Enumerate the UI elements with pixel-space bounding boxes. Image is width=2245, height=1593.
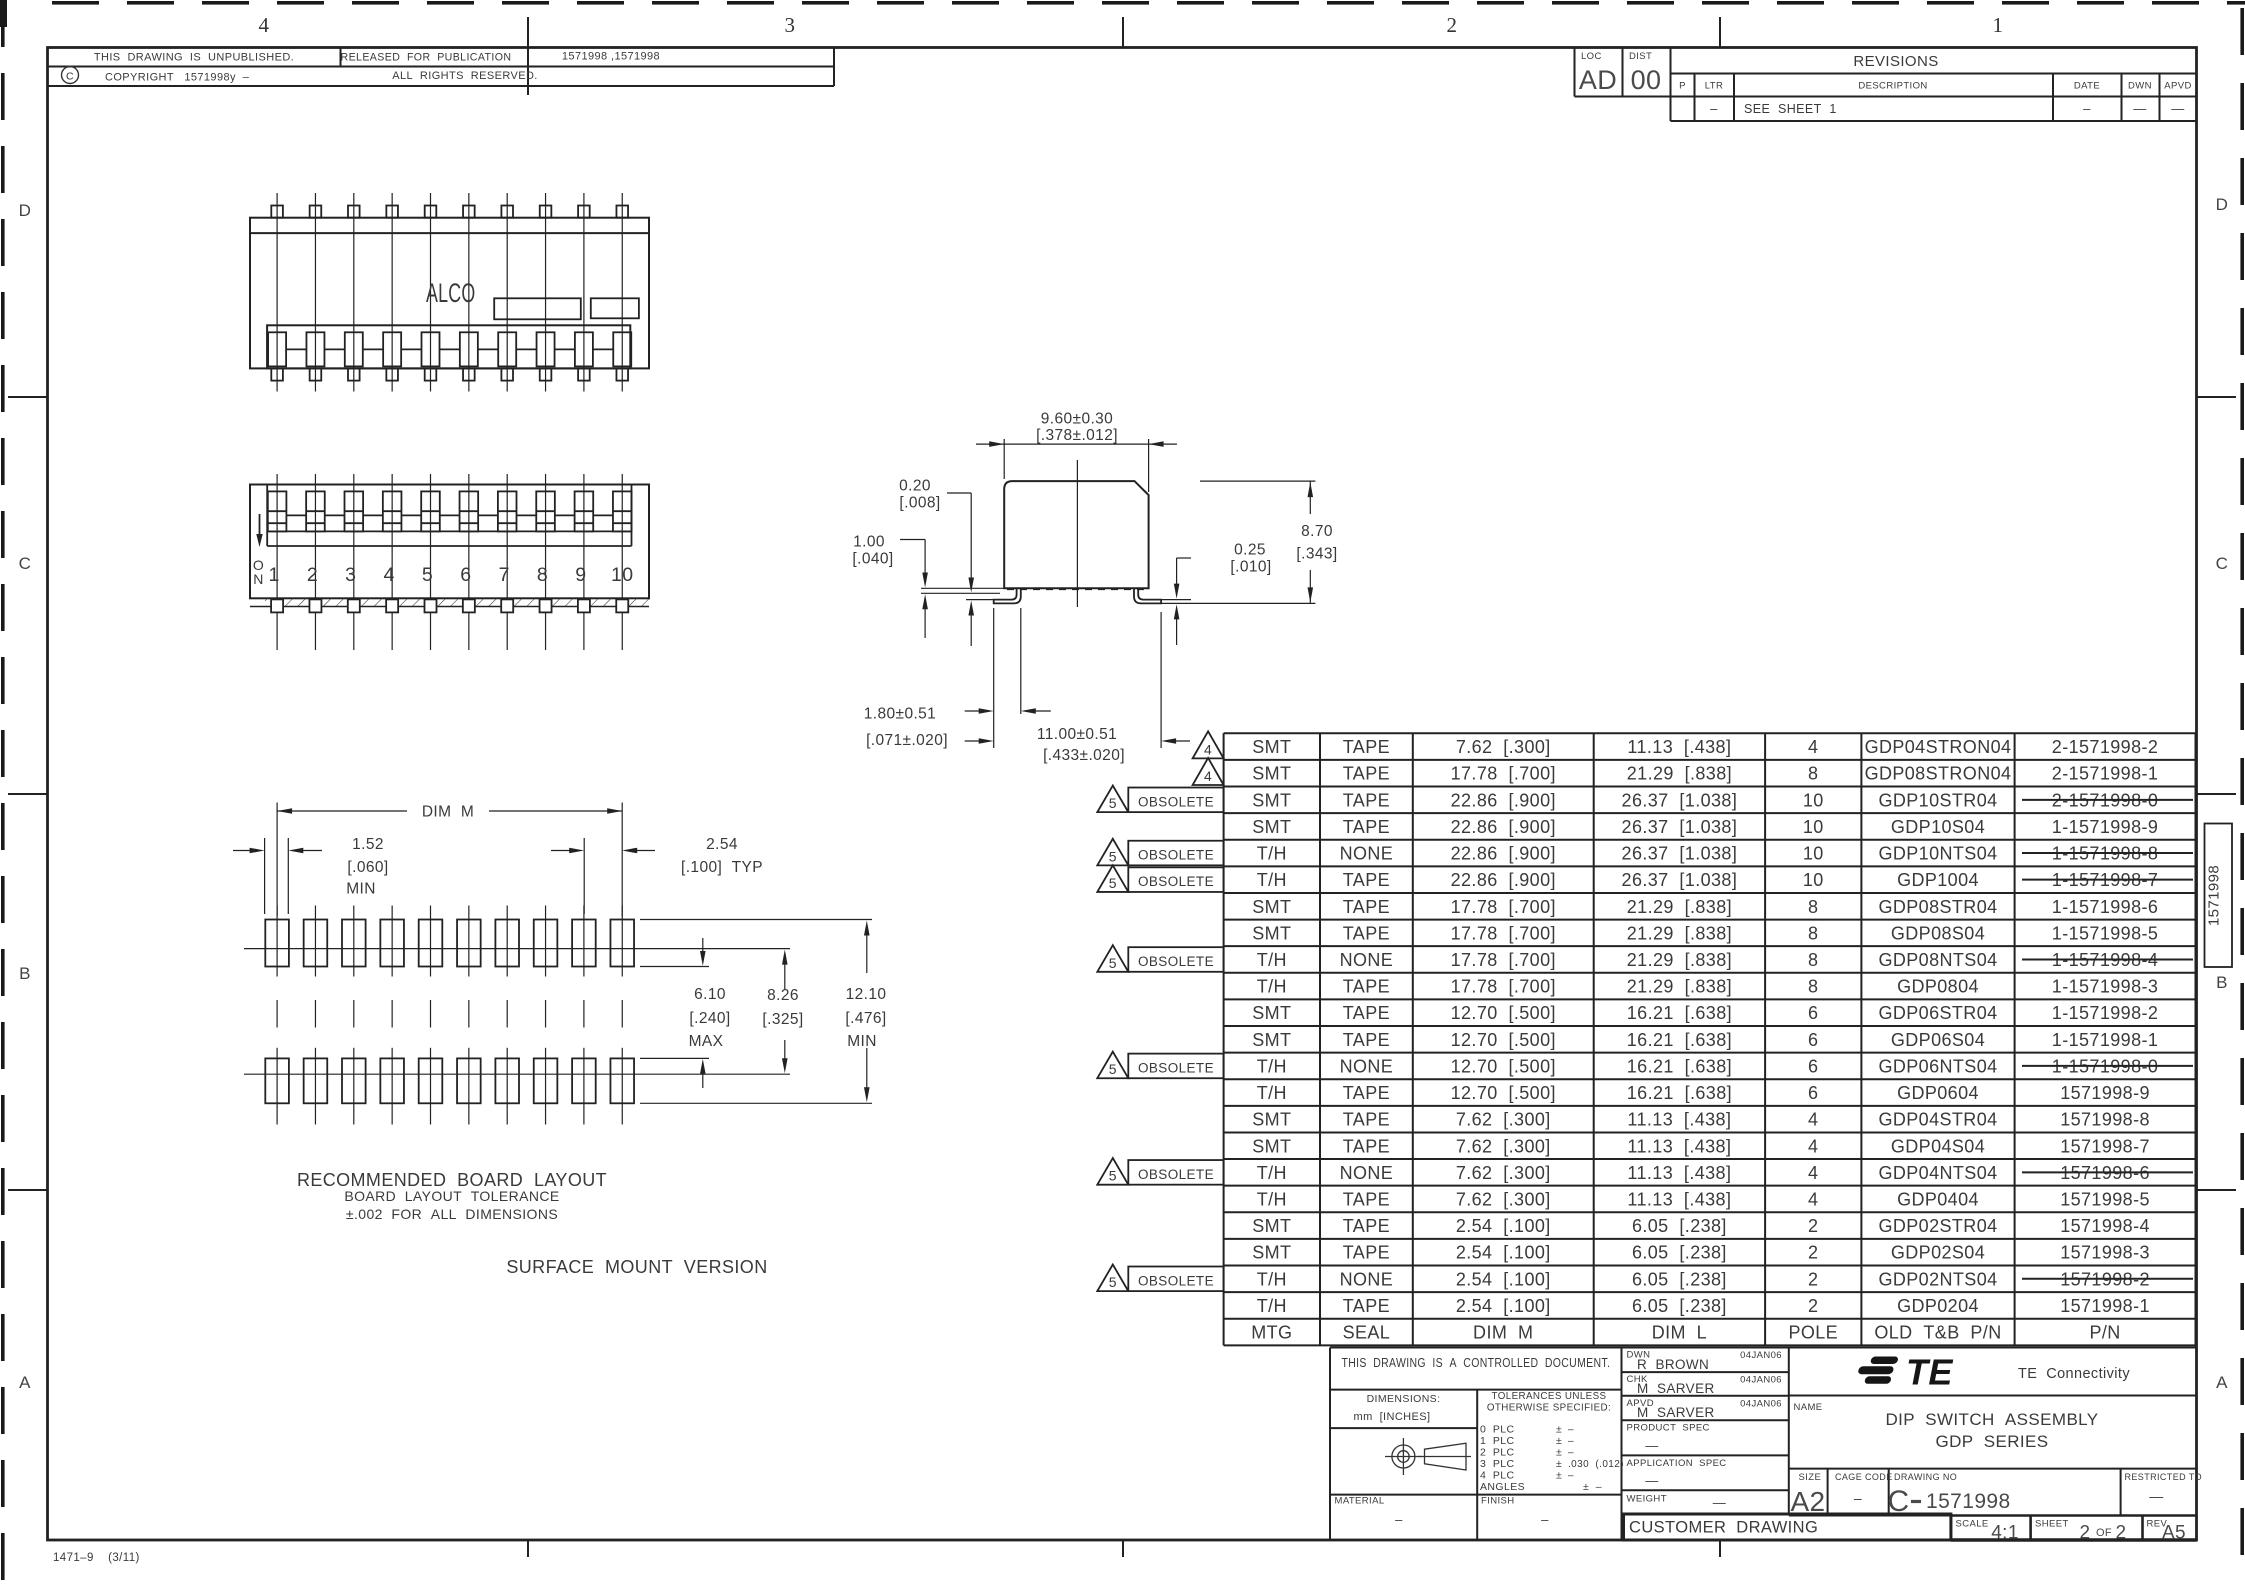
svg-text:6.10: 6.10	[694, 986, 726, 1003]
obsolete flag row 13	[1128, 1054, 1223, 1079]
svg-text:11.13 [.438]: 11.13 [.438]	[1627, 1110, 1731, 1130]
svg-text:±: ±	[1556, 1458, 1562, 1470]
svg-text:5: 5	[1109, 795, 1117, 811]
title block: scale/sheet/rev row	[1950, 1516, 1953, 1541]
strikethrough row 5	[2022, 852, 2193, 854]
svg-text:8.26: 8.26	[767, 987, 799, 1004]
top view: rockers	[268, 332, 286, 366]
svg-text:2.54 [.100]: 2.54 [.100]	[1456, 1269, 1551, 1289]
svg-text:9.60±0.30: 9.60±0.30	[1041, 411, 1113, 428]
svg-text:GDP08S04: GDP08S04	[1891, 923, 1985, 943]
svg-text:[.378±.012]: [.378±.012]	[1036, 427, 1118, 444]
board layout dim: 6.10 [.240] MAX	[640, 966, 709, 968]
svg-text:THIS DRAWING IS UNPUBLISHED: THIS DRAWING IS UNPUBLISHED.	[94, 52, 294, 64]
obsolete flag row 17	[1128, 1160, 1223, 1185]
top view: bottom pin squares	[271, 368, 283, 380]
svg-text:1-1571998-5: 1-1571998-5	[2052, 923, 2159, 943]
svg-text:NONE: NONE	[1340, 1269, 1394, 1289]
side view: vertical centerline	[1076, 460, 1078, 607]
svg-text:04JAN06: 04JAN06	[1740, 1375, 1782, 1386]
svg-text:GDP06NTS04: GDP06NTS04	[1878, 1056, 1997, 1076]
svg-text:MIN: MIN	[847, 1033, 877, 1050]
svg-text:GDP0604: GDP0604	[1897, 1083, 1979, 1103]
zone ticks right	[2197, 396, 2236, 398]
svg-text:–: –	[1541, 1512, 1549, 1527]
svg-text:GDP04STR04: GDP04STR04	[1878, 1110, 1997, 1130]
svg-text:21.29 [.838]: 21.29 [.838]	[1627, 923, 1732, 943]
side view dim: 1.80±0.51 [.071±.020]	[993, 608, 995, 748]
svg-text:OBSOLETE: OBSOLETE	[1138, 1167, 1214, 1182]
svg-text:OF: OF	[2096, 1527, 2112, 1539]
front view: body outline	[250, 485, 649, 599]
svg-text:SMT: SMT	[1252, 897, 1291, 917]
svg-text:1571998-1: 1571998-1	[2060, 1296, 2150, 1316]
svg-text:6.05 [.238]: 6.05 [.238]	[1632, 1269, 1727, 1289]
svg-text:RELEASED FOR PUBLICATION: RELEASED FOR PUBLICATION	[341, 52, 512, 64]
svg-text:SHEET: SHEET	[2035, 1519, 2069, 1530]
svg-text:7.62 [.300]: 7.62 [.300]	[1456, 1163, 1551, 1183]
svg-text:1: 1	[268, 564, 279, 586]
svg-text:2.54: 2.54	[706, 836, 738, 853]
svg-text:SEAL: SEAL	[1343, 1323, 1391, 1343]
svg-text:SMT: SMT	[1252, 1110, 1291, 1130]
dashed trim border right	[2240, 8, 2244, 55]
svg-text:2: 2	[1808, 1216, 1818, 1236]
svg-text:12.70 [.500]: 12.70 [.500]	[1451, 1003, 1556, 1023]
svg-text:2.54 [.100]: 2.54 [.100]	[1456, 1216, 1551, 1236]
side view dim: 11.00±0.51 [.433±.020]	[1160, 612, 1162, 748]
svg-text:REVISIONS: REVISIONS	[1853, 53, 1938, 70]
svg-text:3: 3	[345, 564, 356, 586]
title block: size row	[1827, 1469, 1829, 1516]
zone ticks top	[527, 17, 529, 95]
front view: ON arrow	[259, 514, 261, 536]
svg-text:LOC: LOC	[1581, 51, 1602, 62]
svg-text:GDP08NTS04: GDP08NTS04	[1878, 950, 1997, 970]
svg-text:1-1571998-2: 1-1571998-2	[2052, 1003, 2159, 1023]
svg-text:7.62 [.300]: 7.62 [.300]	[1456, 1189, 1551, 1209]
svg-text:10: 10	[1803, 844, 1824, 864]
svg-text:NONE: NONE	[1340, 1056, 1394, 1076]
svg-text:—: —	[1713, 1495, 1726, 1510]
svg-text:SMT: SMT	[1252, 1030, 1291, 1050]
svg-text:GDP04S04: GDP04S04	[1891, 1136, 1985, 1156]
svg-text:TE: TE	[1906, 1352, 1953, 1393]
top view: rocker strip	[267, 325, 630, 368]
board layout: bottom pad row	[265, 1058, 289, 1103]
svg-text:C: C	[1887, 1485, 1909, 1518]
svg-text:1-1571998-9: 1-1571998-9	[2052, 817, 2159, 837]
svg-text:TE Connectivity: TE Connectivity	[2018, 1366, 2130, 1382]
title block: customer drawing box	[1624, 1514, 1951, 1540]
svg-text:26.37 [1.038]: 26.37 [1.038]	[1622, 817, 1738, 837]
svg-text:6: 6	[1808, 1030, 1818, 1050]
strikethrough row 3	[2022, 799, 2193, 801]
revision triangle 4, row 2	[1193, 758, 1224, 785]
svg-text:—: —	[2171, 101, 2184, 116]
svg-text:2: 2	[1808, 1296, 1818, 1316]
svg-text:4: 4	[1204, 768, 1212, 784]
title block: third angle projection symbol	[1392, 1445, 1415, 1468]
svg-text:17.78 [.700]: 17.78 [.700]	[1451, 977, 1556, 997]
svg-text:2: 2	[2116, 1523, 2127, 1544]
svg-text:T/H: T/H	[1257, 1296, 1287, 1316]
svg-text:MIN: MIN	[346, 881, 376, 898]
svg-text:TAPE: TAPE	[1343, 1083, 1390, 1103]
svg-text:–: –	[1568, 1425, 1574, 1436]
svg-text:7: 7	[499, 564, 510, 586]
copyright line	[62, 67, 79, 84]
svg-text:DWN: DWN	[2128, 81, 2152, 92]
svg-text:OBSOLETE: OBSOLETE	[1138, 848, 1214, 863]
svg-text:COPYRIGHT 1571998y –: COPYRIGHT 1571998y –	[105, 72, 250, 84]
svg-text:A: A	[2216, 1373, 2228, 1392]
svg-text:4: 4	[1808, 1136, 1818, 1156]
svg-text:04JAN06: 04JAN06	[1740, 1350, 1782, 1361]
svg-text:R BROWN: R BROWN	[1637, 1357, 1709, 1372]
TE logo	[1857, 1352, 1953, 1393]
svg-text:5: 5	[1109, 955, 1117, 971]
svg-text:CAGE CODE: CAGE CODE	[1835, 1472, 1893, 1482]
svg-text:TAPE: TAPE	[1343, 1243, 1390, 1263]
svg-text:5: 5	[422, 564, 433, 586]
top view: pin centerlines	[276, 193, 278, 392]
svg-text:21.29 [.838]: 21.29 [.838]	[1627, 977, 1732, 997]
svg-text:1 PLC: 1 PLC	[1480, 1435, 1515, 1447]
svg-text:THIS DRAWING IS A CONTROLL: THIS DRAWING IS A CONTROLLED DOCUMENT.	[1342, 1357, 1611, 1370]
svg-text:5: 5	[1109, 875, 1117, 891]
svg-text:21.29 [.838]: 21.29 [.838]	[1627, 897, 1732, 917]
svg-text:ALCO: ALCO	[426, 277, 476, 308]
top view: top strip line	[250, 232, 649, 234]
svg-text:±: ±	[1556, 1424, 1562, 1436]
svg-text:2: 2	[307, 564, 318, 586]
svg-text:±.002 FOR ALL DIMENSIONS: ±.002 FOR ALL DIMENSIONS	[346, 1206, 558, 1222]
svg-text:±: ±	[1556, 1470, 1562, 1482]
svg-text:T/H: T/H	[1257, 950, 1287, 970]
svg-text:6: 6	[1808, 1083, 1818, 1103]
side view: right gull-wing lead	[1134, 588, 1161, 603]
side view dim: 8.70 [.343]	[1200, 480, 1315, 482]
svg-text:T/H: T/H	[1257, 870, 1287, 890]
svg-text:TAPE: TAPE	[1343, 1189, 1390, 1209]
svg-text:C: C	[19, 554, 32, 573]
svg-text:D: D	[19, 201, 32, 220]
front view: lower pin squares	[271, 599, 283, 612]
svg-text:1: 1	[1993, 13, 2004, 37]
svg-text:1-1571998-6: 1-1571998-6	[2052, 897, 2159, 917]
svg-text:2.54 [.100]: 2.54 [.100]	[1456, 1296, 1551, 1316]
front view: inner frame	[266, 485, 268, 547]
svg-text:WEIGHT: WEIGHT	[1627, 1494, 1667, 1505]
svg-text:16.21 [.638]: 16.21 [.638]	[1627, 1083, 1732, 1103]
svg-text:GDP1004: GDP1004	[1897, 870, 1979, 890]
svg-text:21.29 [.838]: 21.29 [.838]	[1627, 764, 1732, 784]
svg-text:OBSOLETE: OBSOLETE	[1138, 1273, 1214, 1288]
svg-text:2.54 [.100]: 2.54 [.100]	[1456, 1243, 1551, 1263]
svg-text:[.071±.020]: [.071±.020]	[866, 732, 948, 749]
svg-text:DIM M: DIM M	[422, 804, 474, 821]
svg-text:22.86 [.900]: 22.86 [.900]	[1451, 790, 1556, 810]
svg-text:±: ±	[1556, 1435, 1562, 1447]
svg-text:DIST: DIST	[1629, 51, 1652, 62]
svg-text:8: 8	[1808, 764, 1818, 784]
svg-text:SMT: SMT	[1252, 1243, 1291, 1263]
svg-text:OBSOLETE: OBSOLETE	[1138, 954, 1214, 969]
revision triangle 4, row 1	[1193, 731, 1224, 758]
board layout dim: 8.26 [.325]	[652, 948, 790, 950]
svg-text:11.13 [.438]: 11.13 [.438]	[1627, 1189, 1731, 1209]
svg-text:GDP04NTS04: GDP04NTS04	[1878, 1163, 1997, 1183]
top view: rocker connector lines	[286, 348, 306, 350]
svg-text:POLE: POLE	[1788, 1323, 1838, 1343]
svg-text:10: 10	[1803, 817, 1824, 837]
svg-text:7.62 [.300]: 7.62 [.300]	[1456, 1110, 1551, 1130]
obsolete flag row 9	[1128, 947, 1223, 972]
svg-text:GDP10S04: GDP10S04	[1891, 817, 1985, 837]
svg-text:D: D	[2216, 195, 2229, 214]
title block outer	[1330, 1347, 2197, 1349]
board layout: DIM M dimension	[276, 803, 278, 917]
board layout dim: 1.52 [.060] MIN	[264, 838, 266, 914]
svg-text:1571998-9: 1571998-9	[2060, 1083, 2150, 1103]
svg-text:SMT: SMT	[1252, 764, 1291, 784]
svg-text:2: 2	[1808, 1269, 1818, 1289]
front view: well connector lines	[286, 514, 306, 516]
svg-text:RECOMMENDED BOARD LAYOUT: RECOMMENDED BOARD LAYOUT	[297, 1170, 607, 1190]
svg-text:DIM L: DIM L	[1652, 1323, 1707, 1343]
svg-text:C: C	[66, 71, 74, 83]
svg-text:–: –	[1568, 1436, 1574, 1447]
svg-text:DIMENSIONS:: DIMENSIONS:	[1367, 1393, 1441, 1405]
svg-text:22.86 [.900]: 22.86 [.900]	[1451, 870, 1556, 890]
svg-text:17.78 [.700]: 17.78 [.700]	[1451, 923, 1556, 943]
svg-text:2-1571998-1: 2-1571998-1	[2052, 764, 2159, 784]
svg-text:0 PLC: 0 PLC	[1480, 1424, 1515, 1436]
svg-text:17.78 [.700]: 17.78 [.700]	[1451, 950, 1556, 970]
title block: controlled document cell	[1330, 1389, 1622, 1391]
svg-text:SMT: SMT	[1252, 923, 1291, 943]
svg-text:MTG: MTG	[1251, 1323, 1292, 1343]
dashed trim border top	[52, 1, 99, 5]
svg-text:—: —	[2133, 101, 2146, 116]
svg-text:TAPE: TAPE	[1343, 923, 1390, 943]
svg-text:GDP10NTS04: GDP10NTS04	[1878, 844, 1997, 864]
svg-text:N: N	[253, 571, 264, 587]
svg-text:26.37 [1.038]: 26.37 [1.038]	[1622, 870, 1738, 890]
svg-text:PRODUCT SPEC: PRODUCT SPEC	[1627, 1423, 1710, 1434]
board layout: bottom row horizontal centerline	[244, 1073, 652, 1075]
svg-text:[.433±.020]: [.433±.020]	[1043, 747, 1125, 764]
svg-text:1.52: 1.52	[352, 836, 384, 853]
svg-text:GDP0204: GDP0204	[1897, 1296, 1979, 1316]
board layout dim: 12.10 [.476] MIN	[640, 919, 872, 921]
svg-text:1571998-5: 1571998-5	[2060, 1189, 2150, 1209]
svg-text:GDP08STRON04: GDP08STRON04	[1865, 764, 2012, 784]
svg-text:GDP02STR04: GDP02STR04	[1878, 1216, 1997, 1236]
svg-text:GDP06S04: GDP06S04	[1891, 1030, 1985, 1050]
svg-text:[.476]: [.476]	[845, 1010, 886, 1027]
svg-text:11.13 [.438]: 11.13 [.438]	[1627, 1136, 1731, 1156]
side view dim: 9.60±0.30 [.378±.012]	[1003, 439, 1005, 479]
svg-text:12.70 [.500]: 12.70 [.500]	[1451, 1030, 1556, 1050]
svg-text:21.29 [.838]: 21.29 [.838]	[1627, 950, 1732, 970]
obsolete flag row 5	[1128, 841, 1223, 866]
svg-text:9: 9	[575, 564, 586, 586]
svg-text:TOLERANCES UNLESS: TOLERANCES UNLESS	[1492, 1391, 1607, 1402]
svg-text:NONE: NONE	[1340, 950, 1394, 970]
svg-text:GDP0804: GDP0804	[1897, 977, 1979, 997]
board layout: top row horizontal centerline	[244, 948, 652, 950]
svg-text:–: –	[1568, 1448, 1574, 1459]
corner mark top-left	[0, 0, 7, 27]
svg-text:1-1571998-1: 1-1571998-1	[2052, 1030, 2159, 1050]
svg-text:TAPE: TAPE	[1343, 1296, 1390, 1316]
svg-text:[.325]: [.325]	[762, 1011, 803, 1028]
svg-text:3 PLC: 3 PLC	[1480, 1458, 1515, 1470]
svg-text:OBSOLETE: OBSOLETE	[1138, 794, 1214, 809]
svg-text:8: 8	[1808, 923, 1818, 943]
svg-text:00: 00	[1631, 65, 1662, 95]
svg-text:04JAN06: 04JAN06	[1740, 1398, 1782, 1409]
svg-text:17.78 [.700]: 17.78 [.700]	[1451, 764, 1556, 784]
top view: DIP switch body	[250, 218, 649, 369]
info block top-left	[48, 85, 834, 87]
svg-text:.030 (.012): .030 (.012)	[1568, 1459, 1624, 1470]
svg-text:TAPE: TAPE	[1343, 790, 1390, 810]
svg-text:NAME: NAME	[1794, 1402, 1823, 1413]
svg-text:T/H: T/H	[1257, 844, 1287, 864]
title block: dimensions cell	[1330, 1427, 1477, 1429]
svg-text:FINISH: FINISH	[1481, 1496, 1515, 1507]
svg-text:1571998 ,1571998: 1571998 ,1571998	[562, 51, 660, 63]
front view: pin centerlines	[276, 474, 278, 650]
svg-text:11.13 [.438]: 11.13 [.438]	[1627, 737, 1731, 757]
svg-text:–: –	[1854, 1490, 1862, 1506]
svg-text:GDP06STR04: GDP06STR04	[1878, 1003, 1997, 1023]
svg-text:OBSOLETE: OBSOLETE	[1138, 1060, 1214, 1075]
svg-text:1571998-3: 1571998-3	[2060, 1243, 2150, 1263]
svg-text:CUSTOMER DRAWING: CUSTOMER DRAWING	[1629, 1519, 1818, 1537]
svg-text:—: —	[1645, 1473, 1658, 1488]
svg-text:10: 10	[1803, 870, 1824, 890]
strikethrough row 17	[2022, 1171, 2193, 1173]
svg-text:APPLICATION SPEC: APPLICATION SPEC	[1627, 1458, 1727, 1469]
strikethrough row 13	[2022, 1065, 2193, 1067]
svg-text:SMT: SMT	[1252, 817, 1291, 837]
svg-text:4:1: 4:1	[1991, 1523, 2019, 1544]
svg-text:—: —	[1645, 1438, 1658, 1453]
svg-text:4: 4	[1808, 1110, 1818, 1130]
zone ticks bottom	[527, 1540, 529, 1557]
obsolete flag row 6	[1128, 867, 1223, 892]
revisions block	[1574, 48, 1576, 97]
svg-text:6.05 [.238]: 6.05 [.238]	[1632, 1216, 1727, 1236]
svg-text:1571998-4: 1571998-4	[2060, 1216, 2150, 1236]
svg-text:11.13 [.438]: 11.13 [.438]	[1627, 1163, 1731, 1183]
svg-text:26.37 [1.038]: 26.37 [1.038]	[1622, 844, 1738, 864]
svg-text:2: 2	[1447, 13, 1458, 37]
svg-text:8: 8	[1808, 950, 1818, 970]
svg-text:TAPE: TAPE	[1343, 870, 1390, 890]
svg-text:[.008]: [.008]	[899, 495, 940, 512]
front view: pcb band bottom line	[250, 606, 649, 608]
svg-text:12.70 [.500]: 12.70 [.500]	[1451, 1083, 1556, 1103]
board layout: mid centerline dashes	[276, 1000, 278, 1028]
svg-text:–: –	[2083, 101, 2091, 116]
svg-text:OBSOLETE: OBSOLETE	[1138, 874, 1214, 889]
side view: seating reference lines	[921, 587, 1004, 589]
side view: left gull-wing lead	[994, 588, 1021, 603]
svg-text:0.25: 0.25	[1234, 542, 1266, 559]
svg-text:B: B	[2216, 973, 2228, 992]
svg-text:LTR: LTR	[1705, 81, 1723, 92]
svg-text:DIM M: DIM M	[1473, 1323, 1533, 1343]
svg-text:TAPE: TAPE	[1343, 977, 1390, 997]
svg-text:4: 4	[384, 564, 395, 586]
dashed trim border left	[1, 0, 5, 47]
svg-text:DATE: DATE	[2074, 81, 2100, 92]
title block: approvals column	[1622, 1371, 1789, 1373]
svg-text:–: –	[1710, 101, 1718, 116]
svg-text:OLD T&B P/N: OLD T&B P/N	[1874, 1323, 2001, 1343]
svg-text:1571998-7: 1571998-7	[2060, 1136, 2150, 1156]
svg-text:TAPE: TAPE	[1343, 737, 1390, 757]
svg-text:ALL RIGHTS RESERVED.: ALL RIGHTS RESERVED.	[392, 70, 538, 82]
svg-text:TAPE: TAPE	[1343, 897, 1390, 917]
svg-text:T/H: T/H	[1257, 1189, 1287, 1209]
svg-text:6.05 [.238]: 6.05 [.238]	[1632, 1243, 1727, 1263]
svg-text:2: 2	[1808, 1243, 1818, 1263]
svg-text:SMT: SMT	[1252, 737, 1291, 757]
svg-text:TAPE: TAPE	[1343, 1030, 1390, 1050]
board layout: top pad row	[265, 920, 289, 967]
svg-text:P: P	[1679, 81, 1686, 92]
part number tag (rotated)	[2205, 824, 2233, 968]
svg-text:AD: AD	[1579, 65, 1617, 95]
svg-text:4 PLC: 4 PLC	[1480, 1470, 1515, 1482]
svg-text:T/H: T/H	[1257, 977, 1287, 997]
svg-text:4: 4	[1808, 1189, 1818, 1209]
svg-text:[.343]: [.343]	[1296, 546, 1337, 563]
svg-text:12.10: 12.10	[846, 986, 887, 1003]
svg-text:–: –	[1395, 1512, 1403, 1527]
svg-text:1471–9 (3/11): 1471–9 (3/11)	[53, 1552, 140, 1564]
svg-text:22.86 [.900]: 22.86 [.900]	[1451, 844, 1556, 864]
svg-text:SMT: SMT	[1252, 1003, 1291, 1023]
svg-text:[.060]: [.060]	[347, 859, 388, 876]
svg-text:RESTRICTED TO: RESTRICTED TO	[2125, 1472, 2203, 1482]
svg-text:GDP02S04: GDP02S04	[1891, 1243, 1985, 1263]
svg-text:T/H: T/H	[1257, 1163, 1287, 1183]
svg-text:1-1571998-3: 1-1571998-3	[2052, 977, 2159, 997]
svg-text:16.21 [.638]: 16.21 [.638]	[1627, 1030, 1732, 1050]
svg-text:± –: ± –	[1583, 1481, 1602, 1493]
svg-text:P/N: P/N	[2089, 1323, 2120, 1343]
svg-text:TAPE: TAPE	[1343, 1110, 1390, 1130]
svg-text:1571998: 1571998	[1926, 1490, 2011, 1513]
svg-text:SMT: SMT	[1252, 1136, 1291, 1156]
board layout: bottom row centerlines	[276, 1048, 278, 1125]
svg-text:2: 2	[2080, 1523, 2091, 1544]
svg-text:22.86 [.900]: 22.86 [.900]	[1451, 817, 1556, 837]
svg-text:ANGLES: ANGLES	[1480, 1481, 1525, 1493]
svg-text:SURFACE MOUNT VERSION: SURFACE MOUNT VERSION	[506, 1257, 767, 1277]
svg-text:16.21 [.638]: 16.21 [.638]	[1627, 1003, 1732, 1023]
svg-text:SEE SHEET 1: SEE SHEET 1	[1744, 102, 1837, 116]
strikethrough row 21	[2022, 1278, 2193, 1280]
svg-text:OTHERWISE SPECIFIED:: OTHERWISE SPECIFIED:	[1487, 1403, 1611, 1414]
